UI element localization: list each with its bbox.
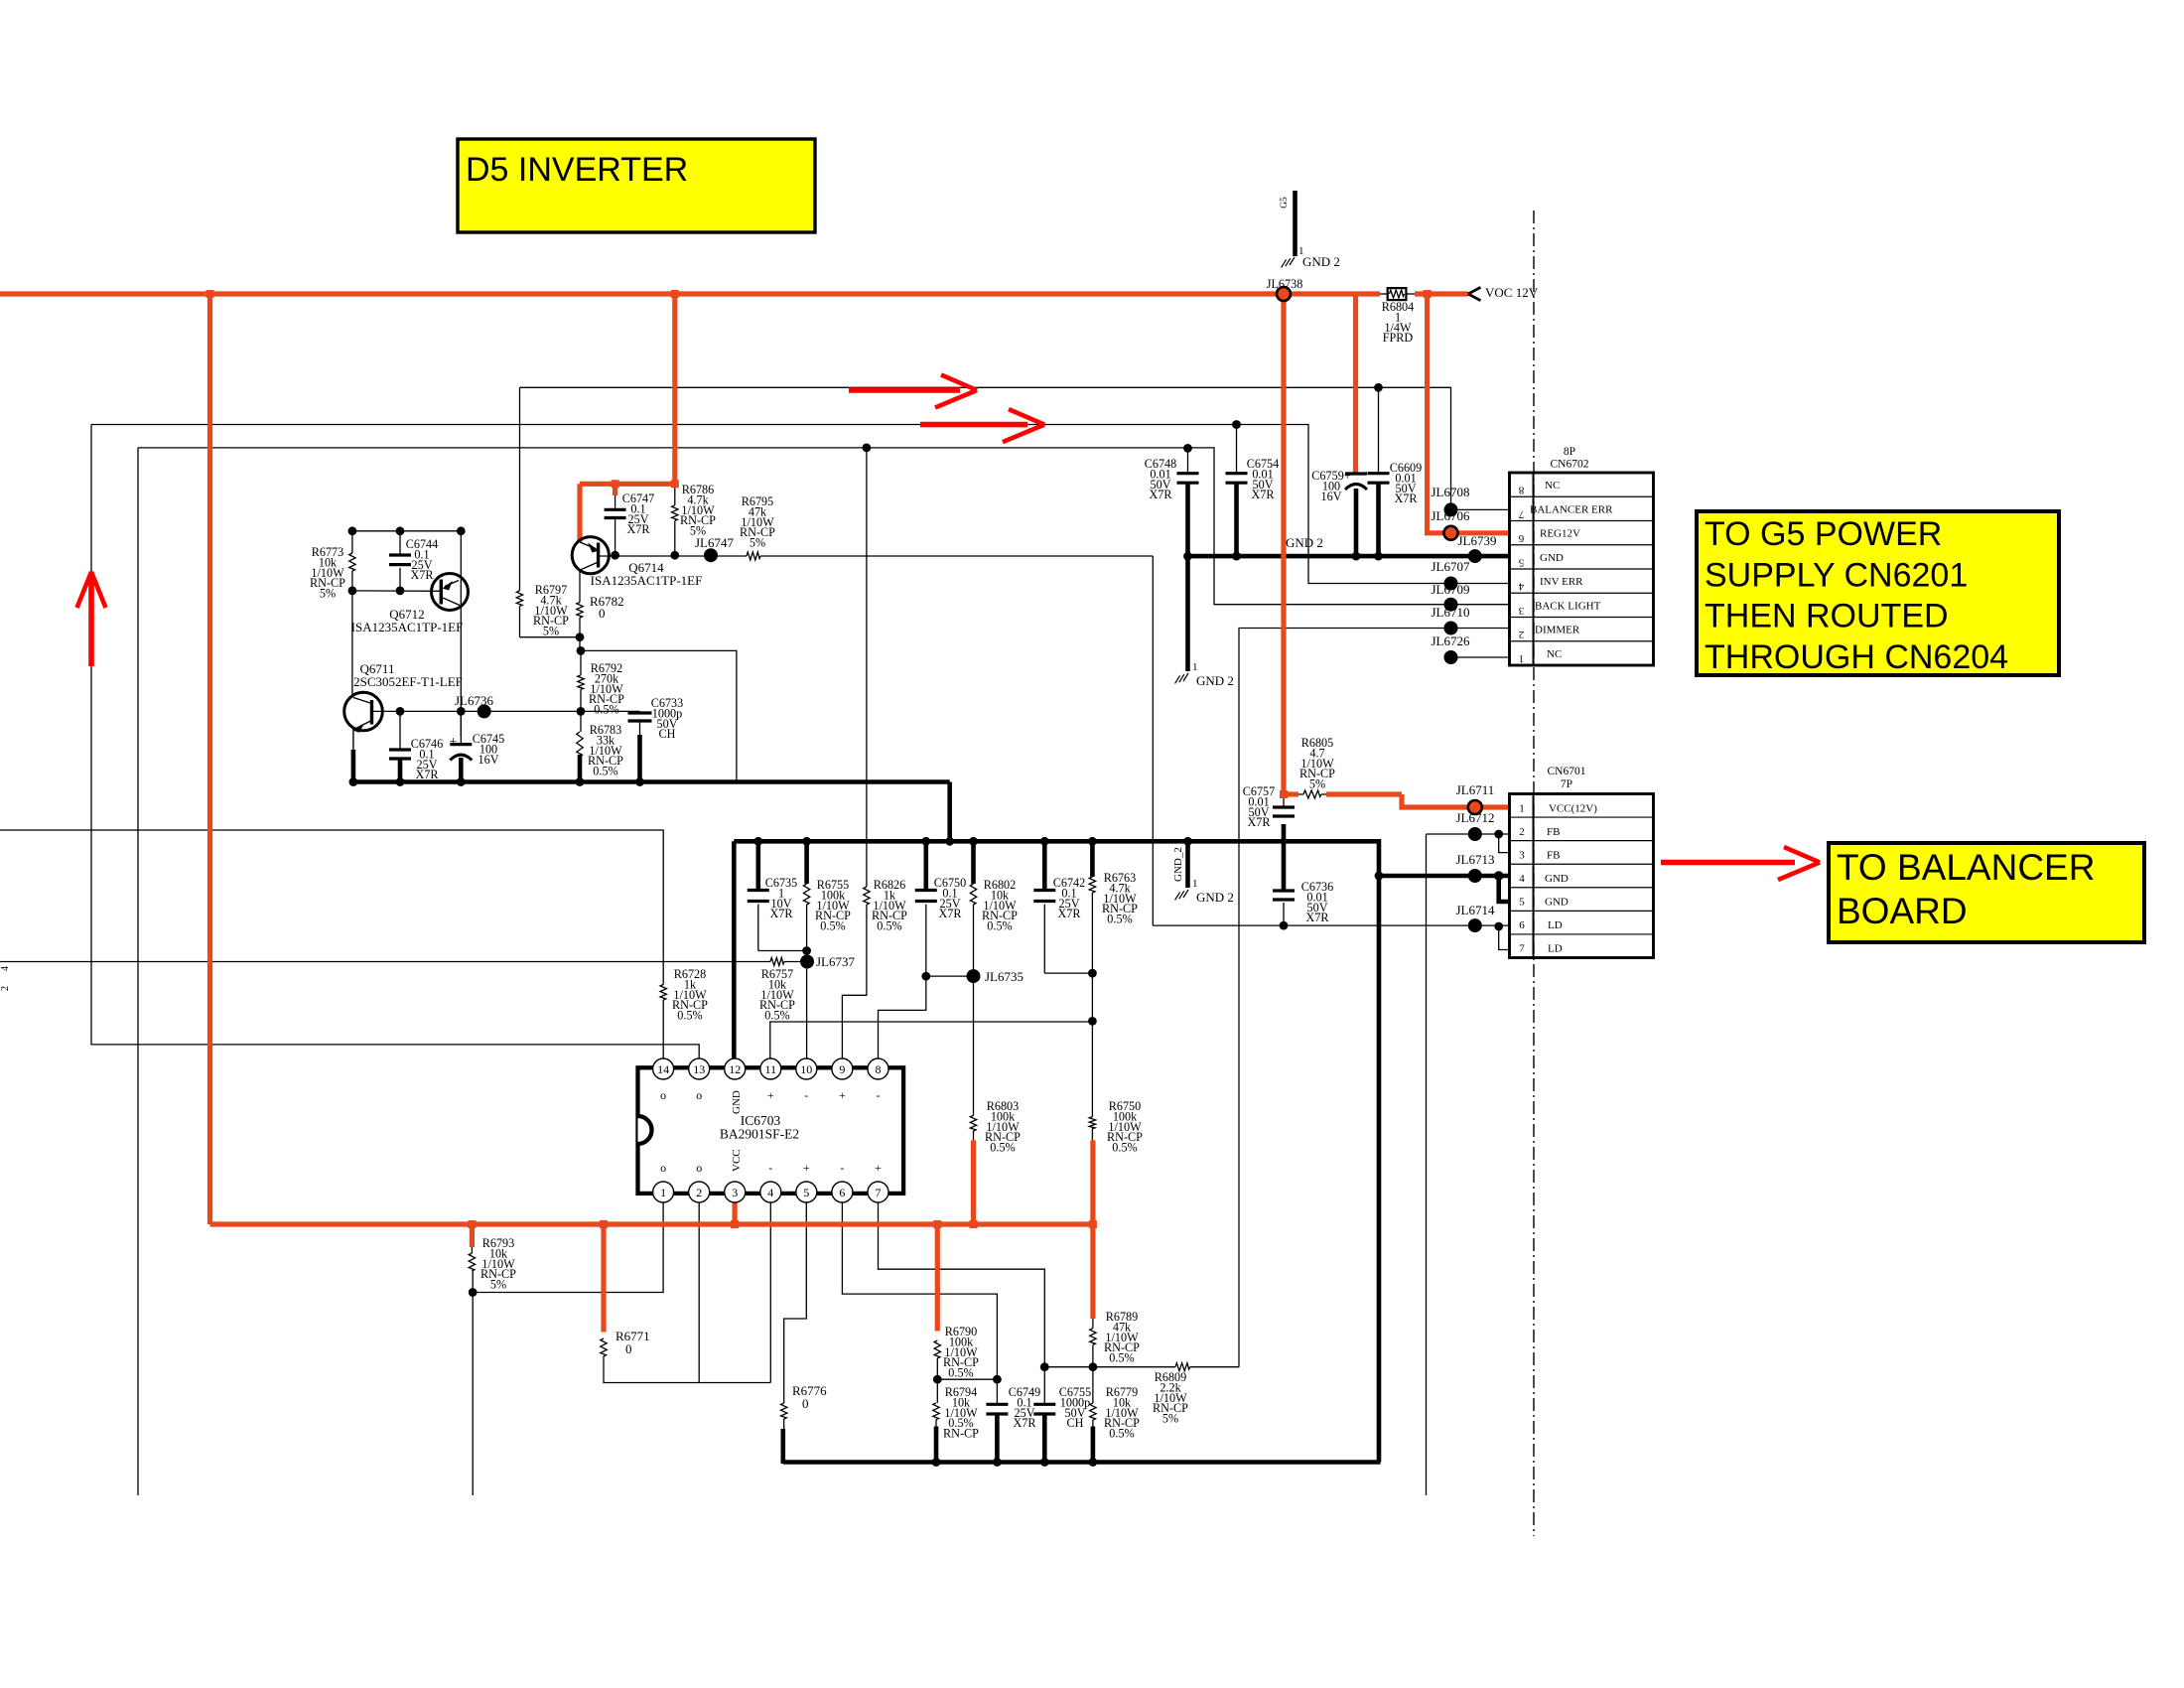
svg-text:GND: GND [1540,552,1564,564]
svg-text:TO BALANCER: TO BALANCER [1837,847,2095,888]
svg-text:JL6747: JL6747 [695,535,735,550]
svg-text:7: 7 [876,1186,882,1199]
svg-text:o: o [660,1161,666,1175]
svg-text:VCC(12V): VCC(12V) [1549,802,1597,814]
svg-text:G5: G5 [1280,197,1290,209]
svg-text:X7R: X7R [938,907,962,920]
svg-text:7: 7 [1518,508,1524,520]
svg-text:+: + [803,1161,810,1175]
svg-text:7P: 7P [1561,778,1572,790]
svg-text:REG12V: REG12V [1540,528,1580,540]
svg-text:JL6708: JL6708 [1432,485,1470,499]
svg-text:D5 INVERTER: D5 INVERTER [466,151,688,189]
svg-text:BACK LIGHT: BACK LIGHT [1535,600,1601,612]
svg-text:0.5%: 0.5% [593,765,617,778]
svg-text:FB: FB [1547,826,1560,838]
svg-text:INV ERR: INV ERR [1540,576,1583,588]
svg-text:0.5%: 0.5% [1109,1427,1134,1441]
svg-text:5: 5 [803,1186,809,1199]
svg-text:0: 0 [599,606,606,621]
svg-text:10: 10 [800,1062,812,1076]
svg-text:BALANCER ERR: BALANCER ERR [1530,503,1613,515]
svg-text:DIMMER: DIMMER [1535,625,1580,636]
svg-text:X7R: X7R [415,768,439,781]
svg-text:1: 1 [1192,661,1198,673]
svg-text:+: + [450,735,458,750]
svg-text:2SC3052EF-T1-LEF: 2SC3052EF-T1-LEF [353,674,463,689]
svg-text:JL6737: JL6737 [816,954,856,969]
svg-text:1: 1 [1519,802,1525,814]
svg-text:9: 9 [839,1062,845,1076]
svg-text:3: 3 [1518,605,1524,617]
svg-text:GND_2: GND_2 [1172,847,1184,882]
svg-text:X7R: X7R [1305,911,1329,924]
svg-text:0: 0 [802,1396,809,1411]
svg-text:0.5%: 0.5% [677,1009,702,1023]
svg-text:GND 2: GND 2 [1196,890,1234,905]
svg-text:-: - [804,1088,808,1102]
svg-text:6: 6 [1519,919,1525,931]
svg-text:X7R: X7R [1057,907,1081,920]
svg-text:LD: LD [1548,919,1563,931]
svg-text:5: 5 [1519,897,1525,909]
svg-text:VCC: VCC [731,1149,743,1172]
svg-text:THEN ROUTED: THEN ROUTED [1705,598,1949,635]
svg-text:o: o [660,1088,666,1102]
svg-text:7: 7 [1519,943,1525,955]
svg-text:6: 6 [1518,532,1524,544]
svg-text:2: 2 [1519,629,1525,640]
svg-text:14: 14 [657,1062,669,1076]
svg-text:0.5%: 0.5% [948,1366,973,1380]
svg-text:GND 2: GND 2 [1286,535,1323,550]
svg-text:2: 2 [1519,826,1525,838]
svg-text:-: - [768,1161,772,1175]
svg-text:GND: GND [731,1090,743,1114]
svg-text:JL6738: JL6738 [1267,277,1303,291]
svg-text:CH: CH [1067,1416,1084,1430]
svg-text:+: + [875,1161,882,1175]
svg-text:0.5%: 0.5% [877,919,901,933]
svg-text:BA2901SF-E2: BA2901SF-E2 [720,1127,799,1142]
svg-text:16V: 16V [1321,490,1342,503]
svg-text:1: 1 [660,1186,666,1199]
svg-text:R6782: R6782 [590,594,624,609]
svg-text:RN-CP: RN-CP [943,1427,979,1441]
svg-text:SUPPLY CN6201: SUPPLY CN6201 [1705,556,1968,594]
svg-text:0.5%: 0.5% [820,919,845,933]
svg-text:FB: FB [1547,849,1560,861]
svg-text:0: 0 [625,1341,632,1356]
svg-text:JL6735: JL6735 [985,969,1024,984]
svg-text:JL6706: JL6706 [1432,508,1471,523]
svg-text:CN6702: CN6702 [1551,459,1589,471]
svg-text:JL6712: JL6712 [1456,810,1495,825]
svg-text:JL6711: JL6711 [1456,782,1495,797]
svg-text:3: 3 [732,1186,738,1199]
svg-text:R6776: R6776 [792,1383,827,1398]
svg-text:0.5%: 0.5% [764,1009,789,1023]
svg-text:5%: 5% [320,587,336,601]
svg-text:NC: NC [1547,648,1562,660]
svg-text:NC: NC [1545,480,1560,492]
svg-text:FPRD: FPRD [1383,331,1414,345]
svg-text:GND: GND [1545,897,1569,909]
svg-text:JL6714: JL6714 [1456,903,1496,917]
svg-text:5%: 5% [1162,1412,1178,1426]
svg-text:1: 1 [1192,878,1198,890]
svg-text:4: 4 [1518,581,1524,593]
svg-text:0.5%: 0.5% [987,919,1012,933]
svg-text:5%: 5% [1309,777,1325,791]
svg-text:5%: 5% [750,536,765,550]
svg-text:3: 3 [1519,849,1525,861]
svg-text:2: 2 [0,986,11,991]
svg-text:5%: 5% [543,625,559,638]
svg-text:-: - [877,1088,881,1102]
svg-text:4: 4 [0,966,11,971]
svg-text:-: - [840,1161,844,1175]
svg-text:0.5%: 0.5% [1112,1141,1137,1155]
svg-text:8: 8 [1518,485,1524,496]
svg-text:X7R: X7R [1247,815,1271,829]
svg-text:0.5%: 0.5% [594,703,618,717]
svg-text:JL6736: JL6736 [455,693,494,708]
svg-text:2: 2 [696,1186,702,1199]
svg-text:X7R: X7R [1251,488,1275,501]
svg-text:X7R: X7R [410,568,434,582]
svg-text:X7R: X7R [769,907,793,920]
svg-text:JL6739: JL6739 [1458,533,1497,548]
svg-text:THROUGH CN6204: THROUGH CN6204 [1705,638,2008,676]
svg-text:4: 4 [1519,873,1525,885]
svg-text:GND 2: GND 2 [1302,254,1340,269]
svg-text:5%: 5% [490,1278,506,1292]
svg-text:JL6710: JL6710 [1432,605,1470,620]
svg-text:VOC 12V: VOC 12V [1485,285,1539,300]
svg-text:JL6726: JL6726 [1432,633,1471,648]
svg-text:16V: 16V [478,753,499,767]
svg-text:GND: GND [1545,873,1569,885]
svg-text:+: + [767,1088,774,1102]
svg-text:12: 12 [729,1062,741,1076]
svg-text:o: o [696,1088,702,1102]
svg-text:8P: 8P [1564,446,1575,458]
svg-text:X7R: X7R [1149,488,1172,501]
svg-text:LD: LD [1548,943,1563,955]
svg-text:CN6701: CN6701 [1548,766,1586,777]
svg-text:X7R: X7R [1394,492,1418,505]
svg-text:+: + [839,1088,846,1102]
svg-text:1: 1 [1519,652,1525,664]
svg-text:TO G5 POWER: TO G5 POWER [1705,515,1942,553]
svg-text:0.5%: 0.5% [990,1141,1015,1155]
svg-text:X7R: X7R [626,522,650,536]
svg-text:GND 2: GND 2 [1196,673,1234,688]
svg-text:JL6713: JL6713 [1456,852,1495,867]
svg-text:R6771: R6771 [615,1329,650,1343]
svg-text:X7R: X7R [1013,1416,1036,1430]
svg-text:CH: CH [659,727,676,741]
svg-text:o: o [696,1161,702,1175]
svg-text:5: 5 [1518,556,1524,568]
svg-text:BOARD: BOARD [1837,891,1968,931]
svg-text:0.5%: 0.5% [1107,913,1132,926]
svg-text:0.5%: 0.5% [1109,1351,1134,1365]
svg-text:8: 8 [876,1062,882,1076]
svg-text:JL6709: JL6709 [1432,582,1470,597]
svg-text:13: 13 [693,1062,705,1076]
svg-text:ISA1235AC1TP-1EF: ISA1235AC1TP-1EF [591,573,703,588]
svg-text:11: 11 [765,1062,777,1076]
svg-text:JL6707: JL6707 [1432,559,1471,574]
svg-text:6: 6 [839,1186,845,1199]
svg-text:4: 4 [767,1186,773,1199]
svg-text:ISA1235AC1TP-1EF: ISA1235AC1TP-1EF [351,620,464,634]
